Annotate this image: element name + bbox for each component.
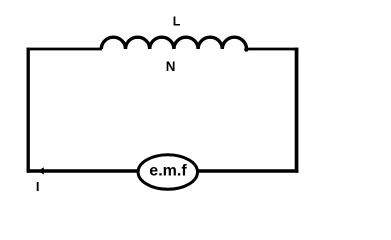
coil end junction dot [244,48,248,52]
svg-text:I: I [36,179,40,194]
current arrow pointing left [38,167,44,174]
svg-text:N: N [166,59,176,74]
emf source (ellipse) [138,155,197,190]
svg-text:L: L [173,15,181,29]
wire top side left segment [27,48,102,51]
inductor L coil (6 loops) [101,37,246,49]
wire top side right segment [246,48,298,51]
wire left side [27,48,30,173]
wire bottom side [27,169,299,173]
svg-text:e.m.f: e.m.f [149,163,187,180]
wire right side [295,48,299,173]
